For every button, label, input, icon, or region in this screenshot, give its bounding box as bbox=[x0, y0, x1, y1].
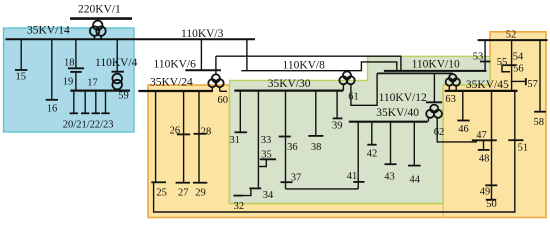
feeder 54/56 to bus 35KV/45 bbox=[511, 40, 513, 91]
svg-text:41: 41 bbox=[347, 171, 358, 182]
wire 110KV/3 down to tie line bbox=[246, 39, 248, 70]
svg-text:38: 38 bbox=[311, 142, 322, 153]
line 52 bbox=[478, 39, 548, 41]
bus 17 bbox=[70, 89, 130, 91]
label 110KV/8 bbox=[283, 60, 326, 72]
svg-text:19: 19 bbox=[63, 76, 74, 87]
label 48 bbox=[479, 154, 490, 165]
zone 35KV/30 green region bbox=[230, 56, 491, 203]
svg-text:55: 55 bbox=[497, 57, 508, 68]
label 110KV/12 bbox=[379, 92, 427, 104]
svg-text:29: 29 bbox=[195, 187, 206, 198]
label 28 bbox=[201, 126, 212, 137]
svg-text:220KV/1: 220KV/1 bbox=[78, 3, 121, 15]
tie line over T61 bbox=[241, 62, 396, 71]
svg-text:36: 36 bbox=[287, 142, 298, 153]
svg-text:20/21/22/23: 20/21/22/23 bbox=[63, 119, 114, 130]
svg-text:48: 48 bbox=[479, 154, 490, 165]
label 20/21/22/23 bbox=[63, 119, 114, 130]
wire 110KV/3 to 110KV/6 bbox=[200, 39, 202, 70]
label 50 bbox=[486, 199, 497, 210]
stub 57 bbox=[512, 78, 526, 85]
zone 35KV/24 + 35KV/45 yellow region bbox=[148, 32, 546, 218]
label 15 bbox=[16, 71, 27, 82]
transformer T61 bbox=[339, 71, 354, 91]
load 29 with switch 28 bbox=[193, 91, 207, 183]
label 41 bbox=[347, 171, 358, 182]
label 49 bbox=[480, 187, 491, 198]
label 35KV/40 bbox=[376, 107, 419, 119]
load 46 bbox=[457, 91, 469, 121]
label 60 bbox=[218, 95, 229, 106]
svg-text:28: 28 bbox=[201, 126, 212, 137]
label 27 bbox=[178, 187, 189, 198]
svg-text:35KV/45: 35KV/45 bbox=[466, 79, 509, 91]
bus 35KV/14 + line 110KV/3 bbox=[6, 38, 256, 40]
wire T60 top bbox=[215, 56, 217, 74]
svg-text:35KV/24: 35KV/24 bbox=[150, 77, 193, 89]
transformer T62 with 110KV/12 bar bbox=[426, 73, 442, 121]
label 26 bbox=[170, 125, 181, 136]
svg-text:35KV/14: 35KV/14 bbox=[27, 25, 70, 37]
svg-text:61: 61 bbox=[348, 92, 359, 103]
load 31 bbox=[235, 91, 248, 133]
load 44 bbox=[408, 122, 421, 166]
tie wire bottom loop 25 to 51 bbox=[154, 92, 515, 212]
transformer T60 bbox=[208, 74, 227, 91]
svg-text:35KV/30: 35KV/30 bbox=[268, 78, 311, 90]
svg-text:31: 31 bbox=[230, 135, 241, 146]
svg-text:33: 33 bbox=[261, 135, 272, 146]
label 220KV/1 bbox=[78, 3, 121, 15]
label 110KV/6 bbox=[154, 58, 197, 70]
label 35 bbox=[261, 149, 272, 160]
load 42 bbox=[367, 122, 376, 145]
label 33 bbox=[261, 135, 272, 146]
load 43 bbox=[385, 122, 397, 165]
svg-text:25: 25 bbox=[156, 187, 167, 198]
label 37 bbox=[291, 172, 302, 183]
label 57 bbox=[527, 79, 538, 90]
node 47 bar bbox=[472, 139, 497, 141]
label 17 bbox=[87, 78, 98, 89]
load 39 bbox=[333, 91, 343, 119]
label 18 bbox=[64, 57, 75, 68]
label 47 bbox=[476, 130, 487, 141]
svg-text:110KV/3: 110KV/3 bbox=[181, 28, 224, 40]
label 46 bbox=[458, 124, 469, 135]
feeder 49/50 bbox=[485, 140, 497, 199]
svg-text:59: 59 bbox=[118, 91, 129, 102]
svg-text:52: 52 bbox=[506, 30, 517, 41]
wire bus45 to node 47 bbox=[491, 91, 493, 140]
svg-text:56: 56 bbox=[513, 63, 524, 74]
svg-text:110KV/4: 110KV/4 bbox=[95, 57, 138, 69]
svg-text:110KV/6: 110KV/6 bbox=[154, 58, 197, 70]
switch 53 drop to 110KV/10 bbox=[480, 40, 490, 71]
label 54 bbox=[513, 51, 524, 62]
wire T61 right winding to 110KV/12 bbox=[351, 73, 377, 105]
label 110KV/10 bbox=[412, 58, 460, 70]
label 31 bbox=[230, 135, 241, 146]
svg-text:42: 42 bbox=[367, 149, 378, 160]
zone boundary between yellow regions bbox=[442, 204, 444, 218]
bus 35KV/30 bbox=[234, 89, 343, 91]
bus 110KV/6 bbox=[185, 69, 221, 71]
svg-text:26: 26 bbox=[170, 125, 181, 136]
label 53 bbox=[473, 52, 484, 63]
svg-text:39: 39 bbox=[332, 120, 343, 131]
load 27 with switch 26 bbox=[176, 91, 191, 183]
load 48 bbox=[478, 140, 490, 150]
svg-text:110KV/10: 110KV/10 bbox=[412, 58, 460, 70]
svg-text:35: 35 bbox=[261, 149, 272, 160]
label 44 bbox=[410, 175, 421, 186]
svg-text:58: 58 bbox=[534, 117, 545, 128]
label 56 bbox=[513, 63, 524, 74]
svg-text:27: 27 bbox=[178, 187, 189, 198]
svg-text:57: 57 bbox=[527, 79, 538, 90]
feeder 36/37 and tie line to 35KV/40 bbox=[279, 91, 365, 189]
load 16 bbox=[46, 39, 58, 100]
label 36 bbox=[287, 142, 298, 153]
label 63 bbox=[445, 94, 456, 105]
svg-text:37: 37 bbox=[291, 172, 302, 183]
line 110KV/12 bbox=[377, 72, 453, 74]
bus 35KV/24 bbox=[138, 90, 213, 92]
label 35KV/45 bbox=[466, 79, 509, 91]
bus 35KV/45 bbox=[445, 90, 518, 92]
svg-text:47: 47 bbox=[476, 130, 487, 141]
capacitor 18/19 bbox=[68, 39, 84, 90]
loads 20/21/22/23 bbox=[70, 91, 110, 114]
bus 220KV/1 bbox=[70, 17, 132, 20]
svg-text:18: 18 bbox=[64, 57, 75, 68]
svg-text:51: 51 bbox=[518, 143, 529, 154]
label 16 bbox=[47, 104, 58, 115]
svg-text:35KV/40: 35KV/40 bbox=[376, 107, 419, 119]
line 110KV/8 bbox=[216, 56, 401, 70]
label 35KV/14 bbox=[27, 25, 70, 37]
label 59 bbox=[118, 91, 129, 102]
label 32 bbox=[234, 201, 245, 212]
label 110KV/3 bbox=[181, 28, 224, 40]
svg-text:17: 17 bbox=[87, 78, 98, 89]
transformer T63 bbox=[446, 73, 460, 91]
load 58 bbox=[534, 40, 546, 112]
svg-text:63: 63 bbox=[445, 94, 456, 105]
svg-text:43: 43 bbox=[384, 171, 395, 182]
label 35KV/30 bbox=[268, 78, 311, 90]
label 43 bbox=[384, 171, 395, 182]
svg-text:50: 50 bbox=[486, 199, 497, 210]
label 51 bbox=[518, 143, 529, 154]
label 25 bbox=[156, 187, 167, 198]
transformer T1 (220KV/1) bbox=[90, 19, 106, 40]
label 39 bbox=[332, 120, 343, 131]
svg-text:46: 46 bbox=[458, 124, 469, 135]
load 25 bbox=[151, 91, 166, 182]
label 35KV/24 bbox=[150, 77, 193, 89]
load 15 bbox=[15, 39, 28, 70]
bus 110KV/10 bbox=[384, 70, 487, 72]
switch tick 54/56 bbox=[506, 64, 516, 66]
label 19 bbox=[63, 76, 74, 87]
label 58 bbox=[534, 117, 545, 128]
label 29 bbox=[195, 187, 206, 198]
svg-text:62: 62 bbox=[434, 127, 445, 138]
label 42 bbox=[367, 149, 378, 160]
svg-text:110KV/8: 110KV/8 bbox=[283, 60, 326, 72]
load 38 bbox=[308, 91, 323, 136]
svg-text:15: 15 bbox=[16, 71, 27, 82]
transformer T4 110KV/4 bbox=[112, 39, 124, 90]
label 55 bbox=[497, 57, 508, 68]
label 34 bbox=[263, 190, 274, 201]
switch 51 bbox=[508, 139, 523, 141]
label 62 bbox=[434, 127, 445, 138]
zone 35KV/14 blue region bbox=[4, 28, 135, 132]
svg-text:54: 54 bbox=[513, 51, 524, 62]
svg-text:60: 60 bbox=[218, 95, 229, 106]
bracket 55 bbox=[502, 65, 510, 72]
svg-text:49: 49 bbox=[480, 187, 491, 198]
label 110KV/4 bbox=[95, 57, 138, 69]
bus 35KV/40 bbox=[349, 121, 428, 123]
svg-text:32: 32 bbox=[234, 201, 245, 212]
svg-text:44: 44 bbox=[410, 175, 421, 186]
label 52 bbox=[506, 30, 517, 41]
svg-text:34: 34 bbox=[263, 190, 274, 201]
label 61 bbox=[348, 92, 359, 103]
feeder 33 with capacitor 35 and loads 34/32 bbox=[234, 91, 277, 196]
svg-text:16: 16 bbox=[47, 104, 58, 115]
svg-text:53: 53 bbox=[473, 52, 484, 63]
wire T62 right winding to node 47 bbox=[437, 118, 476, 142]
label 38 bbox=[311, 142, 322, 153]
svg-text:110KV/12: 110KV/12 bbox=[379, 92, 427, 104]
